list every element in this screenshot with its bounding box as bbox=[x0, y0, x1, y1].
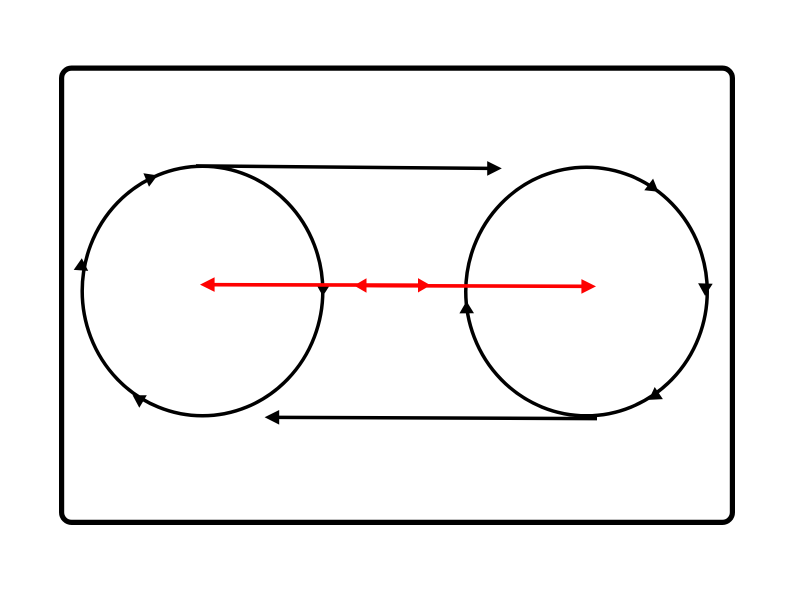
right circle arrowhead lower-right bbox=[649, 387, 663, 400]
left circle arrowhead left bbox=[74, 258, 89, 271]
left circle (clockwise circulation) bbox=[82, 166, 323, 416]
top arrow (left circle top to the right, pointing right) bbox=[196, 161, 502, 176]
bottom arrow (right circle bottom to the left, pointing left) bbox=[265, 410, 597, 425]
red double-headed arrow left (left circle center to mid gap) bbox=[200, 277, 431, 292]
right circle arrowhead upper-right bbox=[644, 179, 658, 192]
left circle arrowhead right bbox=[316, 284, 331, 296]
frame border bbox=[62, 68, 733, 522]
red double-headed arrow right (mid gap to right circle center) bbox=[354, 278, 596, 293]
right circle (clockwise circulation) bbox=[466, 167, 708, 416]
left circle arrowhead lower-left bbox=[133, 395, 147, 408]
right circle arrowhead right bbox=[698, 283, 713, 295]
right circle arrowhead left bbox=[459, 301, 474, 313]
left circle arrowhead upper-left bbox=[143, 173, 157, 187]
